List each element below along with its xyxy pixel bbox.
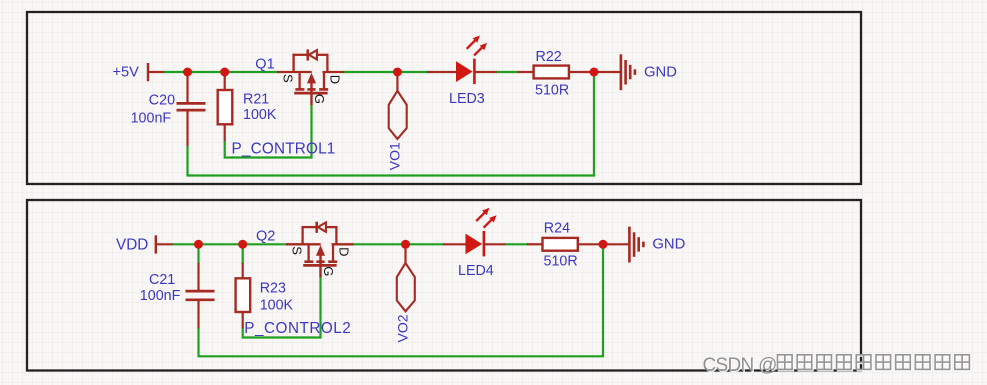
wire VDD rail <box>173 243 289 245</box>
svg-text:Q1: Q1 <box>255 56 274 72</box>
frame box 1 (top sheet border) <box>27 12 861 184</box>
svg-text:G: G <box>312 94 327 104</box>
wire Q2 drain to LED4 <box>353 243 444 245</box>
wire node to ground (bottom) <box>603 243 630 245</box>
watermark CSDN <box>703 355 971 377</box>
wire net P_CONTROL1 <box>225 105 312 158</box>
svg-text:P_CONTROL2: P_CONTROL2 <box>244 320 351 337</box>
svg-text:100nF: 100nF <box>140 288 181 304</box>
wire Q1 drain to LED3 <box>344 71 428 73</box>
svg-text:100K: 100K <box>243 107 277 123</box>
svg-text:VDD: VDD <box>116 236 148 253</box>
node junction at C20 <box>183 68 192 77</box>
svg-text:LED4: LED4 <box>458 263 494 279</box>
wire ground return (top) <box>188 72 595 176</box>
ground GND (bottom) <box>629 227 685 263</box>
svg-text:R21: R21 <box>243 92 269 108</box>
body diode of Q2 <box>315 222 318 233</box>
node junction after R22 <box>590 68 599 77</box>
resistor R22 <box>518 49 592 98</box>
node junction at R21 <box>220 68 229 77</box>
svg-text:LED3: LED3 <box>449 91 485 107</box>
wire ground return (bottom) <box>199 244 604 356</box>
ground GND (top) <box>621 54 677 90</box>
port VO2 <box>395 246 415 342</box>
wire LED3 to R22 <box>497 71 519 73</box>
svg-text:CSDN @: CSDN @ <box>703 355 777 376</box>
wire node to ground <box>594 71 621 73</box>
power port +5V <box>113 63 166 81</box>
transistor Q1 (P-MOSFET) <box>255 49 345 105</box>
svg-text:510R: 510R <box>544 254 578 270</box>
node junction at VO1 <box>393 68 402 77</box>
node junction at R23 <box>238 240 247 249</box>
svg-text:GND: GND <box>652 237 685 253</box>
svg-text:VO1: VO1 <box>387 142 403 170</box>
svg-text:100nF: 100nF <box>131 110 172 126</box>
svg-text:R23: R23 <box>260 281 286 297</box>
svg-text:S: S <box>281 74 296 83</box>
wire LED4 to R24 <box>506 243 528 245</box>
svg-text:VO2: VO2 <box>395 314 411 342</box>
svg-text:100K: 100K <box>260 298 294 314</box>
svg-text:Q2: Q2 <box>256 229 275 245</box>
svg-text:C20: C20 <box>149 92 175 108</box>
capacitor C21 <box>140 244 215 328</box>
svg-text:+5V: +5V <box>113 65 140 81</box>
LED4 <box>443 208 506 279</box>
transistor Q2 (P-MOSFET) <box>256 222 354 278</box>
svg-text:R22: R22 <box>536 49 562 65</box>
frame box 2 (bottom sheet border) <box>27 200 861 371</box>
svg-text:P_CONTROL1: P_CONTROL1 <box>232 141 336 158</box>
svg-text:D: D <box>327 75 342 84</box>
wire +5V rail <box>164 71 279 73</box>
power port VDD <box>116 235 174 253</box>
svg-text:G: G <box>321 266 336 276</box>
node junction after R24 <box>599 240 608 249</box>
capacitor C20 <box>131 72 206 147</box>
LED3 <box>427 36 497 107</box>
svg-text:GND: GND <box>644 64 677 80</box>
node junction at C21 <box>194 240 203 249</box>
svg-text:D: D <box>336 247 351 256</box>
body diode of Q1 <box>306 49 309 60</box>
svg-text:C21: C21 <box>149 272 175 288</box>
resistor R21 <box>218 72 277 142</box>
svg-text:510R: 510R <box>535 82 569 98</box>
port VO1 <box>387 74 407 170</box>
resistor R23 <box>236 244 294 328</box>
resistor R24 <box>527 221 601 270</box>
node junction at VO2 <box>401 240 410 249</box>
svg-text:S: S <box>290 246 305 255</box>
svg-text:R24: R24 <box>544 221 570 237</box>
wire net P_CONTROL2 <box>243 277 321 338</box>
